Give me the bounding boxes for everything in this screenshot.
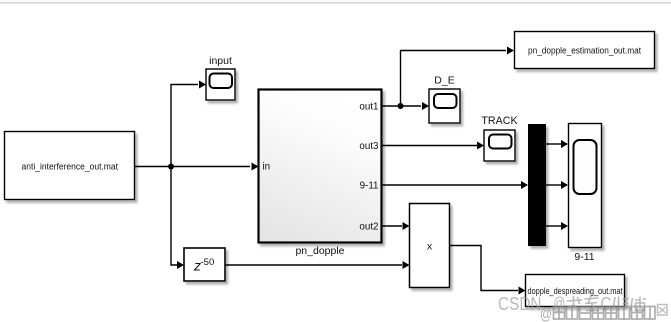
svg-text:out3: out3	[359, 141, 379, 152]
node junction J1	[168, 164, 174, 170]
wire demux out2	[546, 181, 568, 189]
svg-text:pn_dopple: pn_dopple	[295, 245, 344, 257]
svg-text:9-11: 9-11	[360, 181, 379, 192]
scope block TRACK	[481, 115, 518, 161]
svg-text:out2: out2	[359, 222, 378, 233]
svg-text:-50: -50	[201, 257, 215, 268]
scope block input	[206, 55, 235, 100]
svg-text:out1: out1	[359, 102, 378, 113]
svg-text:input: input	[209, 55, 232, 67]
scope block D_E	[429, 75, 460, 124]
wire branch up to estimation file	[401, 47, 515, 107]
wire out3 -> TRACK	[382, 142, 484, 150]
wire branch up to input scope	[171, 81, 206, 167]
block To File: pn_dopple_estimation_out.mat	[515, 32, 655, 69]
wire demux out3	[546, 222, 568, 230]
svg-text:pn_dopple_estimation_out.mat: pn_dopple_estimation_out.mat	[528, 46, 641, 56]
watermark CSDN line 1	[498, 294, 646, 314]
svg-text:anti_interference_out.mat: anti_interference_out.mat	[22, 162, 119, 172]
scope block 9-11	[569, 124, 602, 264]
wire out1 -> D_E	[382, 102, 429, 110]
product block x	[410, 204, 450, 288]
delay block Z^-50	[184, 248, 225, 281]
svg-text:in: in	[263, 162, 271, 173]
svg-text:9-11: 9-11	[574, 251, 594, 263]
demux bar	[528, 124, 546, 246]
wire product -> despreading file	[450, 246, 526, 295]
svg-text:TRACK: TRACK	[481, 115, 518, 127]
toolbar bottom edge	[0, 0, 671, 4]
wire delay -> product	[225, 261, 410, 269]
wire out2 -> product	[382, 222, 410, 230]
wire demux out1	[546, 140, 568, 148]
svg-text:x: x	[427, 241, 433, 253]
svg-text:CSDN: CSDN	[498, 294, 542, 314]
wire 9-11 -> demux	[382, 181, 528, 189]
node junction J2	[398, 103, 404, 109]
watermark line 2	[540, 304, 667, 322]
block From: anti_interference_out.mat	[5, 132, 135, 200]
subsystem block pn_dopple	[259, 90, 382, 258]
svg-text:D_E: D_E	[434, 75, 454, 87]
wire branch down to delay	[171, 167, 184, 270]
svg-text:@: @	[540, 304, 552, 322]
wire main: anti_interference_out -> in	[135, 163, 259, 171]
block To File: dopple_despreading_out.mat	[526, 275, 625, 307]
